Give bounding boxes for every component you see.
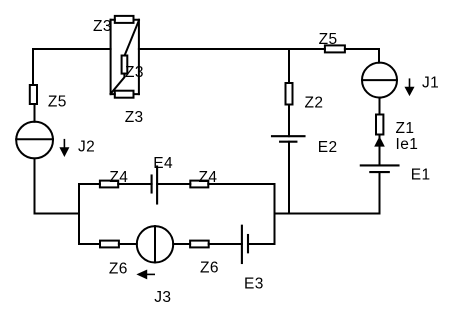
svg-text:Z5: Z5	[48, 94, 67, 111]
svg-text:Z4: Z4	[109, 169, 128, 186]
svg-text:E2: E2	[318, 139, 338, 156]
svg-text:Z3: Z3	[93, 18, 112, 35]
svg-text:Z1: Z1	[396, 120, 415, 137]
svg-text:E4: E4	[153, 155, 173, 172]
svg-text:Z5: Z5	[319, 31, 338, 48]
svg-text:Z4: Z4	[199, 169, 218, 186]
svg-text:E1: E1	[411, 166, 431, 183]
svg-text:J3: J3	[154, 289, 171, 306]
svg-text:J1: J1	[422, 75, 439, 92]
svg-text:Z3: Z3	[125, 109, 144, 126]
svg-text:Z6: Z6	[109, 260, 128, 277]
svg-text:J2: J2	[78, 139, 95, 156]
svg-text:E3: E3	[244, 275, 264, 292]
svg-text:Z3: Z3	[125, 64, 144, 81]
svg-text:Z6: Z6	[200, 259, 219, 276]
svg-text:Z2: Z2	[305, 95, 324, 112]
svg-text:Ie1: Ie1	[396, 136, 419, 153]
